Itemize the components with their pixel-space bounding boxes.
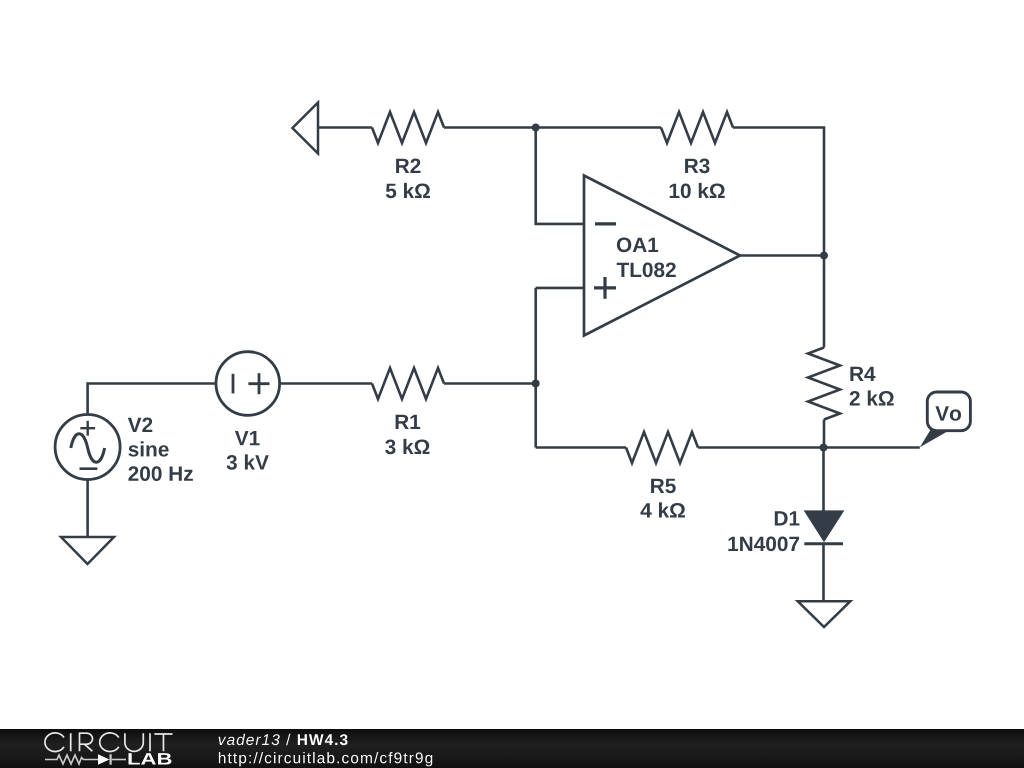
wire output node down to R4 [823, 256, 826, 348]
resistor R3 [661, 112, 733, 143]
label R3 value [685, 159, 709, 174]
label D1 value [775, 511, 800, 525]
resistor R5 [626, 432, 698, 463]
Vo flag box [927, 392, 970, 431]
V2 minus sign [80, 467, 98, 470]
logo resistor diode [45, 754, 126, 765]
resistor R2 [372, 112, 444, 143]
node junction right [820, 444, 828, 452]
wire V1 to R1 [280, 382, 372, 385]
label OA1 value [617, 238, 658, 253]
wire middle vertical [534, 288, 537, 448]
voltage source V2 circle [55, 415, 120, 480]
wire non-inverting input [536, 287, 584, 290]
V1 minus bar [232, 374, 235, 394]
label V2 value [128, 418, 153, 433]
label Vo [935, 406, 961, 421]
label R1 value [396, 415, 421, 429]
label R5 value [651, 479, 676, 494]
ground V2 [61, 537, 114, 564]
bar title text [219, 734, 348, 745]
wire R2 to R3 through node [444, 126, 661, 129]
node junction middle [532, 380, 540, 388]
wire V2 bottom [86, 480, 89, 538]
logo CIRCUIT text [45, 733, 173, 752]
label R2 value [396, 159, 420, 174]
wire D1 to ground [822, 544, 825, 601]
op-amp OA1 [584, 176, 740, 336]
wire R4 to node [823, 420, 826, 448]
op-amp minus sign [595, 222, 616, 225]
diode D1 [806, 512, 842, 540]
V2 sine wave [71, 434, 105, 463]
voltage source V1 circle [216, 352, 280, 416]
wire R1 to node [444, 382, 536, 385]
resistor R4 vertical [808, 348, 840, 420]
V1 plus sign [248, 382, 269, 385]
resistor R1 [372, 368, 444, 399]
wire R3 to right corner down to output node [733, 128, 824, 256]
bar url text [219, 752, 432, 766]
logo LAB text [129, 753, 172, 764]
wire node down to D1 [822, 448, 825, 512]
node junction top [532, 124, 540, 132]
label R4 value [850, 367, 875, 381]
op-amp plus sign [594, 286, 616, 289]
wire op-amp output [740, 254, 824, 257]
wire node to R5 [536, 446, 626, 449]
bottom bar [0, 729, 1024, 768]
node junction output [820, 252, 828, 260]
ground flag arrow top-left [292, 103, 318, 154]
V2 plus sign [80, 427, 95, 429]
wire arrow to R2 [318, 126, 372, 129]
wire V2 top to V1 [88, 384, 216, 415]
ground D1 [798, 601, 851, 627]
wire node to op-amp inverting input [536, 128, 584, 224]
label V1 value [235, 431, 260, 445]
wire R5 to Vo [698, 446, 920, 449]
